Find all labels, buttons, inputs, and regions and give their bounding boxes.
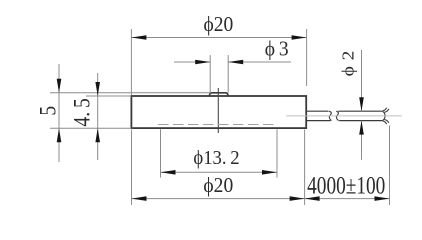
svg-text:ϕ 2: ϕ 2	[339, 50, 357, 77]
hidden dashed line (inner diameter 13.2)	[158, 124, 277, 126]
cable break squiggle right	[336, 111, 338, 121]
dia13.2: arrows	[161, 170, 176, 175]
top dia20: left arrow	[131, 35, 146, 40]
horizontal centerline of cable	[286, 115, 402, 117]
cable end closing curve	[382, 111, 385, 120]
cable end whiskers bottom	[383, 120, 389, 125]
left dims: body-top extension line	[86, 95, 131, 97]
top dia20: right arrow	[292, 35, 307, 40]
vertical centerline through boss	[217, 88, 219, 133]
bottom dia20: extension lines	[131, 130, 133, 206]
cable segment 1	[306, 110, 328, 112]
svg-text:ϕ 3: ϕ 3	[265, 38, 289, 61]
svg-text:ϕ20: ϕ20	[203, 13, 233, 36]
left dims: body-bottom extension line	[50, 127, 131, 129]
dia13.2: extension lines	[160, 129, 162, 177]
svg-text:4000±100: 4000±100	[307, 171, 385, 199]
cable segment 2	[338, 110, 382, 112]
dia2: lower dimension line with up arrow	[361, 121, 363, 160]
svg-text:5: 5	[35, 106, 61, 116]
dim 4.5: bottom arrow pointing up	[95, 128, 100, 142]
dia2: upper dimension line with down arrow	[361, 50, 363, 111]
dia13.2: dimension line	[161, 171, 278, 173]
dim 4000+-100: right extension line	[389, 126, 391, 206]
bottom dia20: dimension line	[132, 198, 305, 200]
bottom dia20: arrows	[132, 196, 147, 201]
dia3: extension lines	[209, 55, 211, 93]
dia3: right tail with arrow pointing left	[228, 61, 291, 63]
cable end whiskers top	[383, 108, 389, 113]
cable break squiggle left	[329, 111, 331, 121]
dim 4.5: top arrow pointing down	[95, 82, 100, 96]
svg-text:4. 5: 4. 5	[69, 98, 95, 126]
dia3: left tail with arrow pointing right	[174, 61, 210, 63]
dim 5: bottom arrow pointing up	[57, 128, 62, 142]
left dims: bump-top extension line	[50, 92, 211, 94]
svg-text:ϕ13. 2: ϕ13. 2	[193, 147, 239, 169]
dim 4000+-100: arrows	[305, 196, 320, 201]
dim 5: vertical dimension line	[58, 64, 60, 162]
svg-text:ϕ20: ϕ20	[203, 174, 233, 197]
dim 5: top arrow pointing down	[57, 79, 62, 93]
bump (top boss)	[209, 93, 228, 96]
top dia20: extension lines	[130, 29, 132, 95]
top dia20: dimension line	[131, 37, 306, 39]
dim 4000+-100: dimension line	[305, 198, 390, 200]
body outline (sensor housing rectangle)	[131, 96, 306, 128]
dim 4.5: vertical dimension line	[97, 73, 99, 160]
